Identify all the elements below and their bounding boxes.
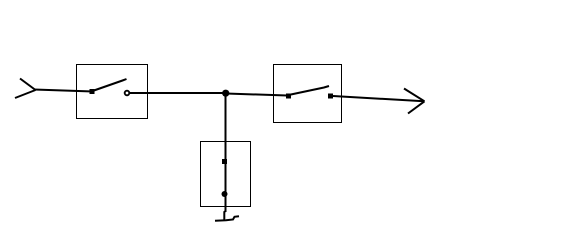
wire junction to S2 [226,94,287,96]
switch S1 enclosure [77,65,148,119]
switch S3 bottom contact [222,191,228,197]
switch S2 enclosure [274,65,342,123]
wire S1 to junction [130,92,227,94]
switch S1 right contact [125,91,130,96]
wire S2 to output [333,96,424,101]
switch S1 blade [93,79,127,91]
switch S2 left contact [286,94,291,99]
output arrow head [404,89,425,114]
node junction [222,90,229,97]
ground [215,216,239,221]
switch S3 enclosure [201,142,251,207]
switch S1 left contact [90,89,95,94]
input lead fork [15,79,36,99]
switch S2 blade [289,86,330,95]
wire S3 to ground [224,197,225,220]
switch S2 right contact [328,94,333,99]
switch S3 top contact [222,159,227,164]
wire junction down branch [225,93,227,212]
wire input to S1 [34,90,93,92]
